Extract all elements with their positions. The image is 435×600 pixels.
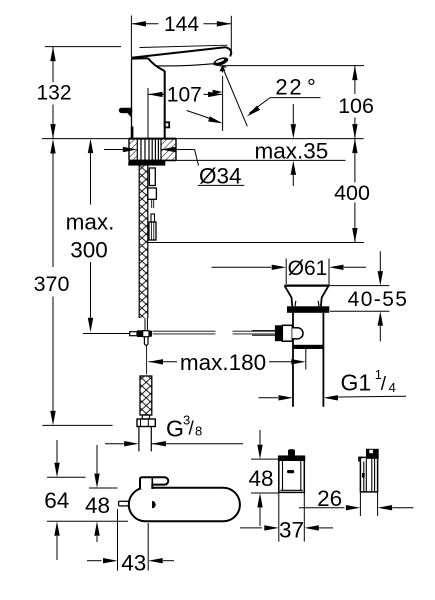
svg-text:37: 37: [279, 518, 304, 543]
svg-text:4: 4: [389, 380, 396, 395]
svg-text:64: 64: [44, 488, 69, 513]
svg-text:40-55: 40-55: [348, 288, 409, 311]
svg-text:/: /: [381, 374, 387, 395]
svg-text:max.180: max.180: [180, 350, 266, 375]
svg-text:8: 8: [195, 424, 202, 439]
svg-text:max.: max.: [66, 210, 115, 235]
svg-text:/: /: [189, 419, 195, 440]
svg-text:43: 43: [121, 551, 146, 576]
svg-text:400: 400: [334, 181, 370, 205]
svg-text:144: 144: [164, 13, 199, 36]
svg-text:107: 107: [167, 84, 202, 107]
svg-text:48: 48: [248, 466, 273, 491]
svg-text:22 °: 22 °: [275, 75, 317, 100]
svg-text:132: 132: [36, 82, 71, 105]
svg-text:370: 370: [34, 272, 70, 296]
svg-text:G: G: [166, 416, 184, 442]
svg-text:106: 106: [338, 94, 374, 118]
svg-text:48: 48: [85, 493, 110, 518]
svg-text:300: 300: [70, 238, 108, 263]
svg-text:Ø61: Ø61: [288, 257, 328, 280]
svg-text:max.35: max.35: [255, 139, 329, 164]
svg-text:G1: G1: [341, 370, 372, 396]
svg-text:Ø34: Ø34: [199, 163, 242, 188]
